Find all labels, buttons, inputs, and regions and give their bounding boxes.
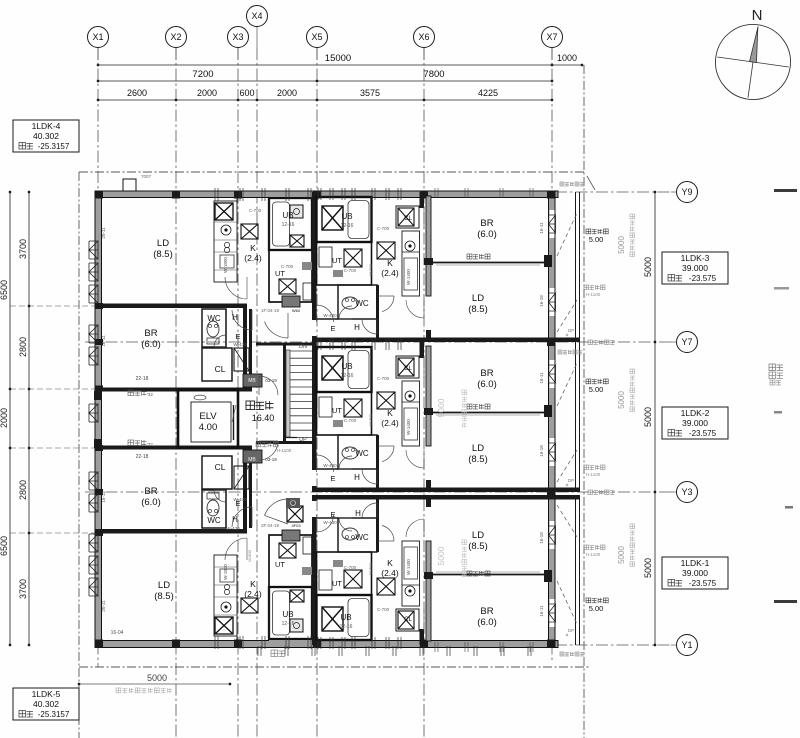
svg-text:1LDK-5: 1LDK-5 [32, 689, 61, 699]
top wall ticks [214, 636, 216, 649]
CL room [202, 456, 232, 489]
svg-text:W-1400: W-1400 [406, 419, 411, 435]
svg-text:-23.575: -23.575 [689, 429, 717, 438]
svg-text:1000: 1000 [557, 53, 577, 63]
svg-text:16-18: 16-18 [539, 445, 544, 457]
svg-text:39.000: 39.000 [682, 263, 708, 273]
svg-text:LD: LD [158, 580, 170, 591]
svg-text:40.302: 40.302 [33, 699, 59, 709]
top wall extra ticks [434, 188, 436, 198]
svg-text:UB: UB [282, 610, 293, 619]
bottom wall tick pairs [257, 646, 259, 656]
svg-text:-25.3157: -25.3157 [38, 710, 70, 719]
LD/BR divide wall [95, 304, 245, 309]
svg-text:E: E [330, 510, 335, 519]
svg-text:X6: X6 [418, 32, 429, 42]
svg-text:LD: LD [472, 293, 484, 304]
svg-text:'32: '32 [147, 392, 153, 397]
H hall wall [225, 490, 227, 528]
svg-text:UB: UB [341, 212, 352, 221]
BR bottom wall [95, 388, 252, 392]
svg-text:X5: X5 [311, 32, 322, 42]
svg-text:W-1800: W-1800 [223, 257, 228, 273]
BR bottom wall [95, 446, 252, 450]
svg-text:K: K [387, 408, 393, 418]
svg-text:03-19: 03-19 [265, 378, 277, 383]
svg-text:K: K [250, 579, 256, 589]
svg-text:E: E [235, 332, 240, 341]
svg-text:C-700: C-700 [377, 226, 390, 231]
svg-text:3700: 3700 [18, 239, 28, 259]
top wall ticks [214, 188, 216, 201]
svg-text:BR: BR [480, 368, 493, 379]
svg-text:CL: CL [404, 617, 412, 623]
svg-text:W-1800: W-1800 [223, 564, 228, 580]
svg-text:DP: DP [568, 328, 574, 333]
svg-text:W-430: W-430 [226, 526, 240, 531]
svg-text:ELV: ELV [199, 411, 217, 422]
svg-text:BR: BR [144, 328, 157, 339]
left unit range hood xbox [215, 203, 233, 220]
svg-text:WC: WC [355, 449, 369, 458]
svg-text:X7: X7 [546, 32, 557, 42]
svg-text:2000: 2000 [0, 408, 9, 428]
elevator ELV [178, 390, 238, 448]
svg-text:W-430: W-430 [323, 520, 337, 525]
svg-text:5000: 5000 [617, 546, 626, 564]
H hall wall [225, 309, 227, 347]
svg-text:5000: 5000 [436, 398, 446, 417]
svg-text:WC: WC [355, 299, 369, 308]
svg-text:(6.0): (6.0) [477, 379, 497, 390]
svg-text:CL: CL [404, 216, 412, 222]
svg-text:UB: UB [282, 211, 293, 220]
BR east wall [243, 448, 247, 534]
WC room [202, 309, 226, 347]
svg-text:H-1100: H-1100 [277, 448, 292, 453]
svg-text:2600: 2600 [127, 88, 147, 98]
grid lines Y [555, 191, 671, 193]
svg-text:7800: 7800 [423, 69, 444, 80]
exterior walls [95, 191, 558, 198]
svg-text:1LDK-4: 1LDK-4 [32, 121, 61, 131]
svg-text:16-04: 16-04 [111, 630, 124, 636]
svg-text:5000: 5000 [436, 546, 446, 565]
svg-text:20-11: 20-11 [101, 600, 106, 612]
svg-text:C-700: C-700 [377, 607, 390, 612]
svg-text:5000: 5000 [617, 391, 626, 409]
svg-text:UP: UP [299, 437, 307, 443]
svg-text:BR: BR [480, 606, 493, 617]
svg-text:(8.5): (8.5) [154, 591, 174, 602]
svg-text:5000: 5000 [147, 673, 167, 683]
svg-text:12-16: 12-16 [282, 621, 295, 627]
shaft w/ diagonal [234, 466, 249, 489]
svg-text:W-1400: W-1400 [406, 559, 411, 575]
grid bubbles [88, 27, 109, 48]
svg-text:MB: MB [248, 457, 256, 463]
svg-text:UT: UT [332, 406, 342, 415]
svg-text:6500: 6500 [0, 536, 9, 556]
svg-text:C-700: C-700 [344, 418, 357, 423]
left unit MB small [282, 530, 300, 541]
svg-text:K: K [250, 243, 256, 253]
svg-text:W60: W60 [292, 308, 301, 313]
svg-text:12-16: 12-16 [282, 222, 295, 228]
svg-text:1LDK-2: 1LDK-2 [681, 408, 710, 418]
svg-text:DN: DN [299, 344, 307, 350]
svg-text:5000: 5000 [643, 257, 653, 277]
svg-text:22-18: 22-18 [136, 376, 149, 382]
svg-text:2800: 2800 [18, 480, 28, 500]
left unit xbox B [241, 224, 258, 239]
svg-text:N: N [752, 7, 763, 24]
svg-text:E: E [330, 474, 335, 483]
svg-text:(2.4): (2.4) [381, 568, 399, 578]
corridor wall [249, 309, 252, 390]
balcony gray annotations [584, 285, 589, 290]
svg-text:16-11: 16-11 [539, 605, 544, 617]
svg-text:600: 600 [239, 88, 254, 98]
svg-text:W-430: W-430 [323, 313, 337, 318]
svg-text:(6.0): (6.0) [141, 339, 161, 350]
svg-text:LD: LD [472, 443, 484, 454]
svg-text:7200: 7200 [192, 69, 213, 80]
svg-text:UB: UB [341, 362, 352, 371]
svg-text:W-1400: W-1400 [406, 269, 411, 285]
wall columns [95, 191, 103, 199]
svg-text:CL: CL [404, 366, 412, 372]
svg-text:22-18: 22-18 [136, 454, 149, 460]
svg-text:DP: DP [568, 628, 574, 633]
svg-text:WC: WC [355, 533, 369, 542]
door arcs [232, 310, 252, 330]
svg-text:BR: BR [144, 486, 157, 497]
corridor wall [249, 447, 252, 528]
svg-text:16.40: 16.40 [252, 413, 275, 423]
svg-text:16-11: 16-11 [101, 491, 106, 503]
left unit UT room [269, 250, 312, 302]
svg-text:UT: UT [332, 256, 342, 265]
svg-text:7007: 7007 [141, 174, 152, 179]
left unit MB small [282, 296, 300, 307]
svg-text:'32: '32 [147, 442, 153, 447]
WC room [202, 490, 226, 528]
bottom 5000 dimension [79, 683, 230, 685]
svg-text:W-700: W-700 [368, 562, 373, 574]
svg-text:C-700: C-700 [249, 208, 262, 213]
svg-text:(8.5): (8.5) [468, 454, 488, 465]
left unit UB room [269, 198, 312, 250]
svg-text:X1: X1 [92, 32, 103, 42]
right dimension line 5000s [654, 192, 656, 645]
svg-text:1LDK-1: 1LDK-1 [681, 558, 710, 568]
svg-text:C-700: C-700 [377, 376, 390, 381]
svg-text:2800: 2800 [18, 337, 28, 357]
svg-text:BR: BR [480, 218, 493, 229]
svg-text:(8.5): (8.5) [153, 249, 173, 260]
LD/BR divide wall [95, 529, 245, 534]
svg-text:5000: 5000 [643, 558, 653, 578]
left unit kitchen counter [214, 201, 237, 282]
svg-text:LD: LD [472, 530, 484, 541]
svg-text:(2.4): (2.4) [381, 418, 399, 428]
svg-text:16-11: 16-11 [101, 335, 106, 347]
svg-text:2000: 2000 [277, 88, 297, 98]
svg-text:H: H [354, 473, 360, 482]
svg-text:12-16: 12-16 [340, 624, 353, 630]
left unit UT room [269, 535, 312, 587]
left unit kitchen counter [214, 555, 237, 636]
svg-text:5000: 5000 [617, 236, 626, 254]
left unit range hood xbox [215, 617, 233, 634]
svg-text:12-16: 12-16 [341, 373, 354, 379]
shaft w/ diagonal [234, 348, 249, 371]
svg-text:(8.5): (8.5) [468, 304, 488, 315]
svg-text:H-1100: H-1100 [586, 472, 601, 477]
right edge artifacts [774, 189, 797, 192]
svg-text:W-430: W-430 [233, 342, 247, 347]
unit label boxes [13, 120, 79, 152]
svg-text:UT: UT [275, 269, 285, 278]
svg-text:H: H [232, 515, 238, 524]
svg-text:16-18: 16-18 [539, 295, 544, 307]
svg-text:UB: UB [340, 613, 351, 622]
svg-text:Y1: Y1 [681, 640, 692, 650]
svg-text:40.302: 40.302 [33, 131, 59, 141]
right unit walls [312, 192, 317, 320]
svg-text:WC: WC [207, 516, 221, 525]
svg-text:H: H [232, 313, 238, 322]
svg-text:X3: X3 [232, 32, 243, 42]
svg-text:12-16: 12-16 [341, 223, 354, 229]
BR east wall [243, 304, 247, 390]
top dimension lines [98, 64, 552, 66]
svg-text:DP: DP [568, 478, 574, 483]
stairs [286, 350, 290, 437]
svg-text:3575: 3575 [360, 88, 380, 98]
svg-text:W-430: W-430 [233, 497, 247, 502]
duct bump on top wall [123, 179, 136, 191]
svg-text:39.000: 39.000 [682, 568, 708, 578]
right wall windows [550, 210, 555, 238]
svg-text:W-700: W-700 [368, 263, 373, 275]
right unit walls [312, 342, 317, 470]
left wall window marks [89, 241, 98, 259]
svg-text:H: H [355, 509, 361, 518]
right unit walls [312, 517, 317, 645]
svg-text:4.00: 4.00 [199, 422, 218, 433]
svg-text:K: K [387, 558, 393, 568]
svg-text:UT: UT [332, 579, 342, 588]
top-right corner slash [587, 176, 595, 190]
svg-text:CL: CL [215, 364, 226, 374]
grid lines X1-X7 [97, 48, 99, 667]
svg-text:X2: X2 [170, 32, 181, 42]
svg-text:X4: X4 [251, 11, 262, 21]
svg-text:(6.0): (6.0) [141, 497, 161, 508]
svg-text:H: H [354, 323, 360, 332]
svg-text:-25.3157: -25.3157 [38, 142, 70, 151]
svg-text:16-11: 16-11 [539, 222, 544, 234]
left unit wall K/UB [268, 198, 270, 250]
svg-text:MB: MB [248, 378, 256, 384]
svg-text:W-430: W-430 [323, 463, 337, 468]
left unit xbox B [241, 598, 258, 613]
svg-text:C-700: C-700 [344, 268, 357, 273]
svg-text:-23.575: -23.575 [689, 274, 717, 283]
svg-text:5.00: 5.00 [589, 385, 604, 394]
CL room [202, 348, 232, 381]
MB dark box [243, 450, 262, 463]
svg-text:UT: UT [275, 560, 285, 569]
svg-text:(6.0): (6.0) [477, 229, 497, 240]
balcony labels [586, 229, 591, 234]
north compass [711, 20, 796, 105]
svg-text:H-1100: H-1100 [586, 552, 601, 557]
site boundary [78, 172, 80, 738]
corridor shaft [287, 506, 303, 522]
svg-text:W-600: W-600 [247, 549, 252, 561]
svg-text:(6.0): (6.0) [477, 617, 497, 628]
lobby door arcs [259, 376, 278, 395]
svg-text:2000: 2000 [197, 88, 217, 98]
svg-text:Y9: Y9 [681, 187, 692, 197]
svg-text:Y3: Y3 [681, 487, 692, 497]
svg-text:4F03: 4F03 [291, 523, 301, 528]
svg-text:15000: 15000 [325, 53, 351, 64]
svg-text:(8.5): (8.5) [468, 541, 488, 552]
svg-text:(2.4): (2.4) [381, 268, 399, 278]
stair room walls [283, 345, 286, 442]
svg-text:5000: 5000 [643, 407, 653, 427]
svg-text:5.00: 5.00 [589, 604, 604, 613]
svg-text:2F:04-19: 2F:04-19 [261, 523, 280, 528]
svg-text:-23.575: -23.575 [689, 579, 717, 588]
svg-text:1LDK-3: 1LDK-3 [681, 253, 710, 263]
svg-text:20-11: 20-11 [101, 227, 106, 239]
bottom wall BR-area ticks [434, 642, 436, 652]
svg-text:4225: 4225 [478, 88, 498, 98]
svg-text:E: E [330, 324, 335, 333]
svg-text:H-1100: H-1100 [586, 292, 601, 297]
svg-text:5.00: 5.00 [589, 235, 604, 244]
svg-text:CL: CL [215, 462, 226, 472]
svg-text:16-18: 16-18 [539, 532, 544, 544]
svg-text:39.000: 39.000 [682, 418, 708, 428]
door arcs [232, 507, 252, 527]
svg-text:C-700: C-700 [344, 565, 357, 570]
svg-text:6500: 6500 [0, 280, 9, 300]
svg-text:Y7: Y7 [681, 337, 692, 347]
left unit UB room [269, 587, 312, 639]
left dimension lines [9, 192, 11, 645]
svg-text:W-700: W-700 [368, 413, 373, 425]
svg-text:3700: 3700 [18, 579, 28, 599]
svg-text:1F:04-19: 1F:04-19 [261, 308, 280, 313]
MB dark box [243, 374, 262, 387]
svg-text:LD: LD [157, 238, 169, 249]
svg-text:(2.4): (2.4) [244, 589, 262, 599]
svg-text:C-700: C-700 [281, 264, 294, 269]
svg-text:K: K [387, 258, 393, 268]
left wall mid piers [94, 391, 102, 400]
svg-text:03-19: 03-19 [265, 457, 277, 462]
left unit wall K/UB [268, 587, 270, 639]
svg-text:(2.4): (2.4) [244, 253, 262, 263]
svg-text:16-11: 16-11 [539, 372, 544, 384]
svg-text:WC: WC [207, 314, 221, 323]
